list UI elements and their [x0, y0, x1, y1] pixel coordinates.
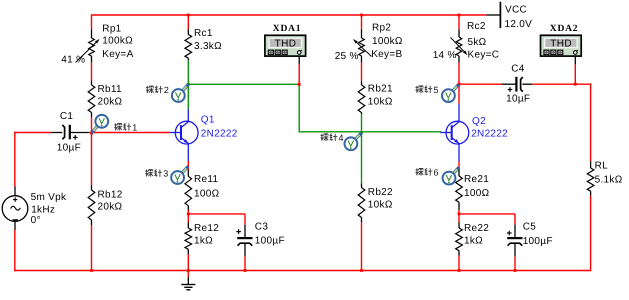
svg-text:THD: THD [550, 39, 572, 50]
svg-text:5kΩ: 5kΩ [468, 37, 487, 48]
svg-text:2N2222: 2N2222 [471, 128, 508, 139]
svg-text:41 %: 41 % [61, 54, 85, 65]
svg-text:2: 2 [164, 85, 169, 95]
svg-text:3: 3 [163, 169, 168, 179]
svg-text:1kΩ: 1kΩ [464, 236, 483, 247]
svg-text:100kΩ: 100kΩ [372, 36, 403, 47]
svg-text:12.0V: 12.0V [505, 19, 533, 30]
svg-text:Key=C: Key=C [468, 50, 500, 61]
svg-text:10µF: 10µF [57, 143, 81, 154]
svg-text:100µF: 100µF [255, 236, 285, 247]
svg-text:Re12: Re12 [194, 223, 219, 234]
svg-text:5m Vpk: 5m Vpk [31, 192, 67, 203]
svg-text:Rb11: Rb11 [98, 84, 123, 95]
svg-text:25 %: 25 % [335, 51, 359, 62]
svg-text:Rp2: Rp2 [372, 22, 391, 33]
svg-text:3.3kΩ: 3.3kΩ [194, 41, 222, 52]
svg-text:6: 6 [434, 168, 439, 178]
svg-text:VCC: VCC [505, 4, 527, 15]
svg-text:XDA2: XDA2 [550, 24, 579, 34]
svg-text:1kΩ: 1kΩ [194, 236, 213, 247]
svg-text:C1: C1 [60, 111, 74, 122]
svg-text:10µF: 10µF [506, 93, 530, 104]
svg-text:0°: 0° [31, 215, 41, 226]
svg-text:20kΩ: 20kΩ [98, 97, 123, 108]
svg-text:100Ω: 100Ω [194, 188, 220, 199]
svg-text:THD: THD [275, 39, 297, 50]
svg-text:10kΩ: 10kΩ [368, 200, 393, 211]
svg-text:4: 4 [339, 133, 344, 143]
svg-text:Rc2: Rc2 [467, 21, 486, 32]
svg-text:Rp1: Rp1 [102, 23, 121, 34]
svg-text:C4: C4 [511, 64, 525, 75]
svg-text:Rb21: Rb21 [368, 83, 393, 94]
svg-text:10kΩ: 10kΩ [368, 97, 393, 108]
svg-text:Re22: Re22 [464, 223, 489, 234]
svg-text:Rc1: Rc1 [194, 28, 213, 39]
svg-text:C3: C3 [255, 222, 269, 233]
svg-text:100kΩ: 100kΩ [102, 36, 133, 47]
svg-text:2N2222: 2N2222 [201, 128, 238, 139]
svg-text:Re11: Re11 [194, 174, 219, 185]
svg-text:100µF: 100µF [523, 236, 553, 247]
svg-text:XDA1: XDA1 [273, 24, 302, 34]
svg-text:C5: C5 [523, 222, 537, 233]
svg-text:Key=A: Key=A [102, 49, 133, 60]
svg-text:14 %: 14 % [433, 50, 457, 61]
svg-text:Q2: Q2 [472, 116, 486, 127]
svg-text:5: 5 [434, 85, 439, 95]
svg-text:RL: RL [595, 161, 609, 172]
svg-text:20kΩ: 20kΩ [98, 201, 123, 212]
svg-text:100Ω: 100Ω [464, 188, 490, 199]
svg-text:Re21: Re21 [464, 174, 489, 185]
svg-text:Q1: Q1 [201, 115, 215, 126]
svg-text:5.1kΩ: 5.1kΩ [595, 175, 623, 186]
svg-text:1: 1 [132, 123, 137, 133]
svg-text:Rb22: Rb22 [368, 187, 393, 198]
svg-text:Rb12: Rb12 [98, 190, 123, 201]
svg-text:Key=B: Key=B [371, 49, 402, 60]
